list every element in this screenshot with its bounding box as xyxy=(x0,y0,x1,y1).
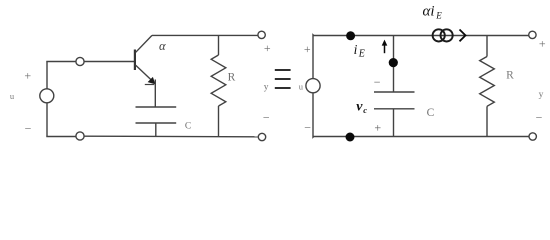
node: input terminal (open circle, top, left circuit) xyxy=(76,57,84,65)
svg-text:u: u xyxy=(299,81,304,91)
transistor Q1 emitter arrow barb line xyxy=(145,84,154,86)
wire: bottom rail (right circuit) xyxy=(313,136,529,138)
label alpha*i_E (dependent source value) xyxy=(423,3,443,20)
svg-text:u: u xyxy=(10,91,15,101)
voltage source u (right circuit) xyxy=(306,79,320,93)
capacitor C (left) bottom plate xyxy=(136,122,177,124)
current direction arrowhead (up) xyxy=(382,40,388,46)
voltage source u (left circuit) xyxy=(40,89,54,103)
node: output terminal - (open circle, bottom right, right circuit) xyxy=(529,133,536,140)
svg-text:+: + xyxy=(374,120,381,134)
resistor R (left) top lead xyxy=(218,35,220,55)
svg-text:i: i xyxy=(354,42,358,57)
resistor R (left) zigzag xyxy=(211,55,226,106)
current direction arrow (up) for capacitor branch xyxy=(384,45,386,54)
label - (left source) xyxy=(25,121,32,135)
capacitor C (left) bottom lead xyxy=(155,123,157,137)
label - (right source) xyxy=(304,121,311,135)
svg-text:y: y xyxy=(539,90,544,100)
wire: left branch top segment (right circuit) xyxy=(312,35,315,79)
label v_c (capacitor voltage) xyxy=(356,100,367,115)
equivalence symbol (triple bar) xyxy=(275,70,291,88)
svg-text:+: + xyxy=(304,42,311,56)
capacitor C (right) top plate xyxy=(374,91,415,93)
svg-text:y: y xyxy=(264,83,269,93)
label i_E (emitter current) xyxy=(354,42,365,60)
wire: emitter vertical lead to capacitor xyxy=(154,80,156,108)
label alpha (transistor gain) xyxy=(159,39,166,53)
resistor R (right) top lead xyxy=(486,36,488,57)
capacitor C (right) bottom plate xyxy=(374,108,415,110)
wire: left branch top segment (source to middle wire corner) xyxy=(46,62,48,89)
capacitor C (right) bottom lead xyxy=(393,109,395,137)
label - (right circuit output) xyxy=(536,111,543,125)
label + (right source) xyxy=(304,42,311,56)
label + (left source) xyxy=(24,69,31,83)
wire: middle wire from input terminal to transistor base xyxy=(84,61,134,63)
wire: middle wire from source corner to input terminal xyxy=(46,61,76,63)
svg-text:R: R xyxy=(506,69,514,81)
svg-text:E: E xyxy=(435,11,442,21)
label - (capacitor v_c polarity top) xyxy=(374,75,381,89)
svg-text:−: − xyxy=(25,121,32,135)
svg-text:+: + xyxy=(24,69,31,83)
label C (right capacitor) xyxy=(427,107,435,119)
transistor Q1 collector line xyxy=(136,35,152,52)
svg-text:+: + xyxy=(539,36,546,50)
node: junction dot on capacitor branch xyxy=(389,58,398,67)
dependent current source alpha*i_E (two overlapping circles) xyxy=(433,29,453,41)
label u (left source) xyxy=(10,91,15,101)
svg-text:αi: αi xyxy=(423,3,435,19)
label y (right circuit output) xyxy=(539,90,544,100)
wire: top rail (left circuit) xyxy=(152,34,258,36)
label R (right resistor) xyxy=(506,69,514,81)
svg-text:E: E xyxy=(358,49,365,60)
svg-text:c: c xyxy=(363,105,367,115)
node: junction dot on bottom rail (right circuit) xyxy=(346,133,355,142)
svg-text:−: − xyxy=(374,75,381,89)
label + (left circuit output) xyxy=(264,41,271,55)
node: input terminal (open circle, bottom, left circuit) xyxy=(76,132,84,140)
label + (right circuit output) xyxy=(539,36,546,50)
transistor Q1 base bar xyxy=(134,50,136,71)
wire: capacitor branch upper lead (right circuit) xyxy=(393,36,395,93)
svg-text:C: C xyxy=(185,122,191,132)
svg-text:R: R xyxy=(228,71,236,83)
node: junction dot i_E on top rail xyxy=(346,31,355,40)
svg-text:C: C xyxy=(427,107,435,119)
resistor R (right) zigzag xyxy=(480,57,495,107)
resistor R (right) bottom lead xyxy=(486,106,488,136)
svg-text:−: − xyxy=(304,121,311,135)
label + (capacitor v_c polarity bottom) xyxy=(374,120,381,134)
label - (left circuit output) xyxy=(263,110,270,124)
label y (left circuit output) xyxy=(264,83,269,93)
svg-text:−: − xyxy=(263,110,270,124)
node: output terminal - (open circle, bottom right, left circuit) xyxy=(258,133,265,140)
wire: left branch bottom segment (source to bottom rail) xyxy=(46,103,48,137)
label R (left resistor) xyxy=(228,71,236,83)
wire: top rail (right circuit) xyxy=(313,35,529,37)
capacitor C (left) top plate xyxy=(136,106,177,108)
wire: bottom rail left segment (left circuit) xyxy=(46,136,76,138)
transistor Q1 emitter arrowhead xyxy=(148,77,156,84)
wire: bottom rail right segment (left circuit) xyxy=(84,135,258,138)
node: output terminal + (open circle, top right, right circuit) xyxy=(529,31,536,38)
label C (left capacitor) xyxy=(185,122,191,132)
svg-text:α: α xyxy=(159,39,166,53)
svg-text:+: + xyxy=(264,41,271,55)
svg-text:−: − xyxy=(536,111,543,125)
resistor R (left) bottom lead xyxy=(218,106,220,137)
label u (right source) xyxy=(299,81,304,91)
transistor Q1 emitter line xyxy=(136,65,155,83)
node: output terminal + (open circle, top right, left circuit) xyxy=(258,31,265,38)
current source direction chevron (right) xyxy=(460,30,466,42)
wire: left branch bottom segment (right circuit) xyxy=(312,93,315,137)
